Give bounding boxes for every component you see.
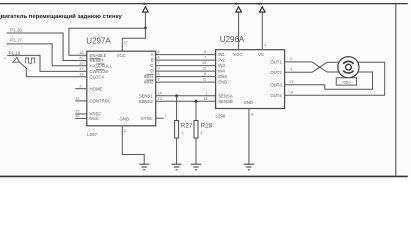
svg-text:3: 3	[290, 68, 292, 72]
svg-text:10: 10	[202, 61, 206, 65]
svg-text:9: 9	[158, 67, 160, 71]
svg-text:+5B 3: +5B 3	[342, 80, 351, 84]
svg-text:ENABLE: ENABLE	[90, 53, 107, 58]
svg-text:A: A	[151, 52, 154, 57]
svg-text:OSC: OSC	[90, 116, 99, 121]
svg-text:11: 11	[76, 97, 80, 101]
svg-text:L297: L297	[87, 132, 97, 137]
svg-text:q: q	[4, 56, 6, 60]
svg-text:C: C	[150, 63, 153, 68]
svg-text:1: 1	[181, 131, 183, 135]
svg-text:7: 7	[158, 61, 160, 65]
svg-text:HOME: HOME	[90, 86, 103, 91]
svg-text:IN1: IN1	[218, 52, 225, 57]
svg-text:B: B	[151, 58, 154, 63]
svg-text:+5v: +5v	[141, 2, 147, 6]
svg-text:ENB: ENB	[218, 80, 227, 85]
svg-text:1: 1	[165, 114, 167, 118]
svg-text:3: 3	[79, 84, 81, 88]
svg-text:8: 8	[158, 78, 160, 82]
svg-text:6: 6	[158, 56, 160, 60]
svg-text:SENS1: SENS1	[139, 93, 154, 98]
svg-text:ENA: ENA	[218, 74, 227, 79]
svg-text:1: 1	[205, 91, 207, 95]
svg-text:U297A: U297A	[86, 36, 111, 45]
svg-text:IN4: IN4	[218, 69, 225, 74]
svg-text:13: 13	[289, 80, 293, 84]
svg-text:12: 12	[124, 41, 128, 45]
svg-text:1: 1	[201, 131, 203, 135]
svg-text:RESET: RESET	[90, 58, 105, 63]
svg-text:P1.17: P1.17	[10, 38, 22, 43]
svg-text:R27: R27	[181, 122, 193, 129]
svg-text:+12v: +12v	[255, 2, 263, 6]
svg-text:2: 2	[124, 129, 126, 133]
svg-text:11: 11	[202, 78, 206, 82]
svg-text:OUT1: OUT1	[270, 60, 282, 65]
svg-text:SENSA: SENSA	[218, 93, 233, 98]
svg-text:HALF/FULL: HALF/FULL	[90, 63, 113, 68]
svg-text:P1.18: P1.18	[9, 50, 21, 55]
svg-text:VCC: VCC	[233, 52, 242, 57]
svg-text:CW/CCW: CW/CCW	[90, 69, 110, 74]
svg-text:5: 5	[158, 72, 160, 76]
svg-text:13: 13	[158, 97, 162, 101]
svg-text:18: 18	[79, 72, 83, 76]
svg-text:GND: GND	[120, 116, 130, 121]
svg-text:4: 4	[158, 50, 160, 54]
svg-text:+5v: +5v	[233, 2, 239, 6]
svg-text:D: D	[150, 69, 153, 74]
svg-text:15: 15	[203, 97, 207, 101]
svg-text:SYNC: SYNC	[141, 116, 153, 121]
svg-text:INH1: INH1	[144, 74, 154, 79]
svg-text:IN2: IN2	[218, 58, 225, 63]
svg-text:7: 7	[204, 56, 206, 60]
svg-text:4: 4	[264, 43, 266, 47]
svg-text:R28: R28	[201, 122, 213, 129]
svg-text:L298: L298	[216, 114, 226, 119]
svg-text:SENS2: SENS2	[139, 99, 154, 104]
svg-text:20: 20	[79, 56, 83, 60]
svg-text:19: 19	[79, 61, 83, 65]
svg-text:14: 14	[158, 91, 162, 95]
svg-text:VS: VS	[258, 52, 264, 57]
svg-text:2: 2	[290, 57, 292, 61]
svg-text:CONTROL: CONTROL	[90, 99, 112, 104]
svg-text:17: 17	[79, 67, 83, 71]
svg-text:GND: GND	[244, 100, 254, 105]
svg-text:14: 14	[289, 91, 293, 95]
svg-text:INH2: INH2	[144, 80, 154, 85]
svg-text:U296A: U296A	[220, 35, 245, 44]
svg-text:CLOCK: CLOCK	[90, 74, 105, 79]
svg-text:SENSB: SENSB	[218, 99, 233, 104]
svg-text:P1.16: P1.16	[10, 27, 22, 32]
svg-text:IN3: IN3	[218, 63, 225, 68]
svg-text:12: 12	[202, 67, 206, 71]
svg-text:OUT3: OUT3	[270, 82, 282, 87]
svg-text:5: 5	[204, 50, 206, 54]
svg-text:16: 16	[75, 114, 79, 118]
svg-text:VCC: VCC	[117, 53, 126, 58]
svg-text:OUT4: OUT4	[270, 93, 282, 98]
svg-text:15: 15	[75, 110, 79, 114]
svg-text:OUT2: OUT2	[270, 70, 282, 75]
svg-text:10: 10	[79, 51, 83, 55]
svg-text:8: 8	[251, 113, 253, 117]
svg-text:6: 6	[204, 72, 206, 76]
svg-text:двигатель перемещающий заднюю: двигатель перемещающий заднюю стенку	[0, 13, 122, 20]
